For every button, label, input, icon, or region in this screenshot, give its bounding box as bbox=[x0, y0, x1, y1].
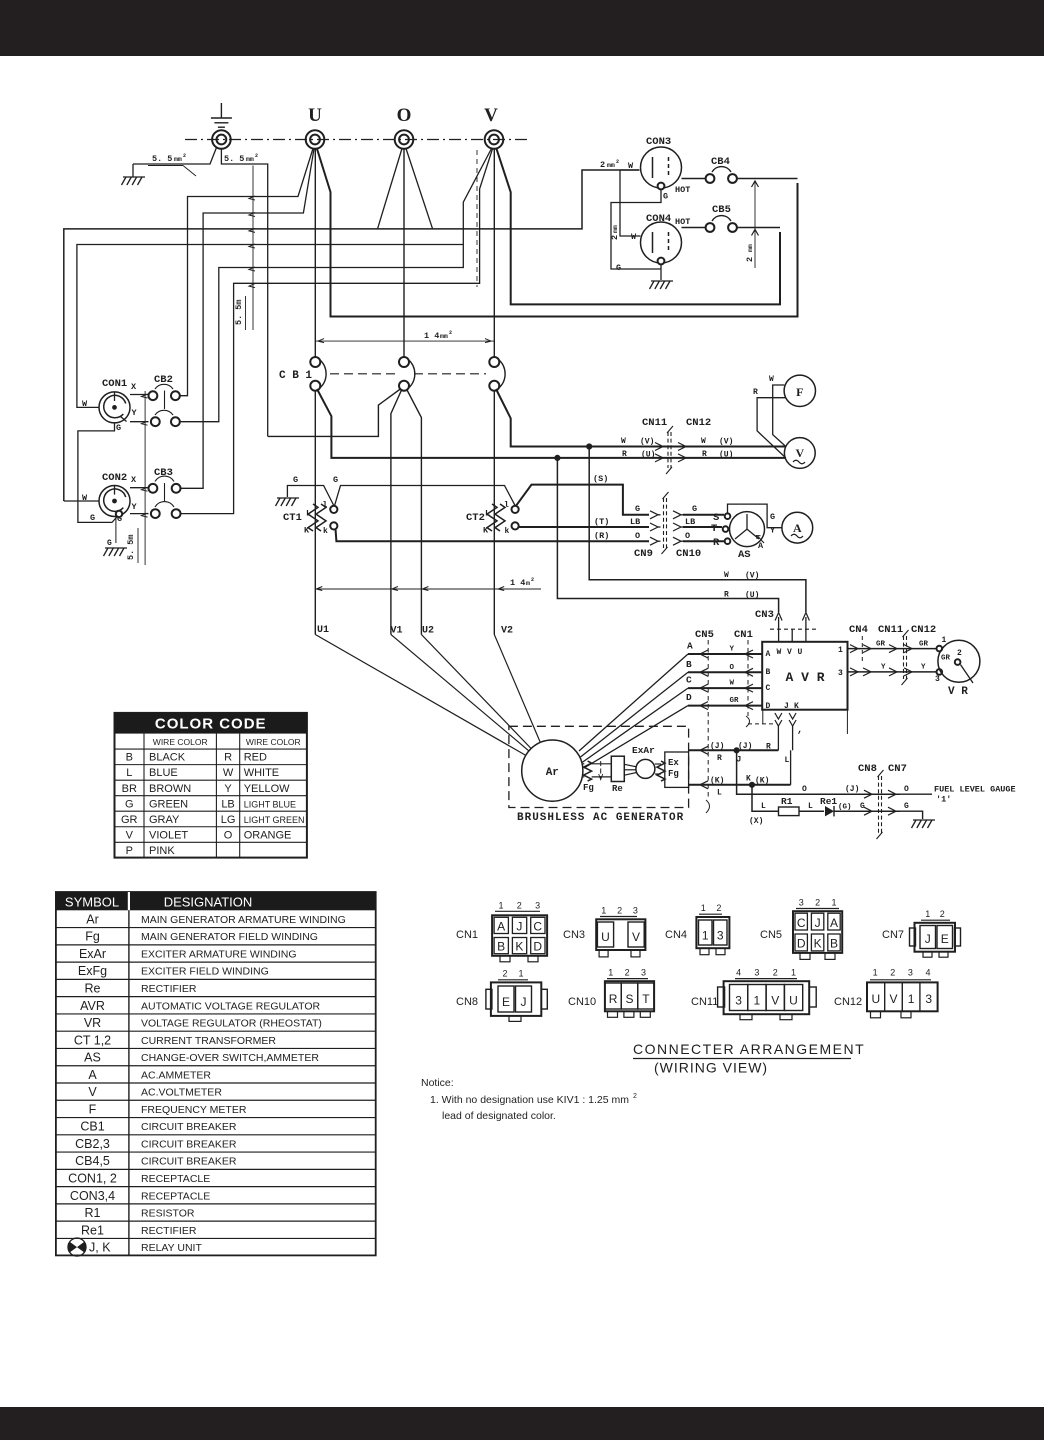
svg-text:3: 3 bbox=[908, 968, 913, 978]
dimension 14mm2 above U1..V2 bbox=[315, 588, 541, 590]
svg-text:1: 1 bbox=[754, 994, 761, 1008]
svg-text:mm: mm bbox=[174, 156, 182, 163]
svg-text:U2: U2 bbox=[422, 626, 434, 637]
svg-text:CN5: CN5 bbox=[695, 629, 714, 641]
svg-text:2: 2 bbox=[616, 159, 619, 165]
svg-text:CN8: CN8 bbox=[456, 996, 478, 1008]
svg-text:1: 1 bbox=[942, 636, 947, 645]
svg-text:RECTIFIER: RECTIFIER bbox=[141, 983, 197, 995]
svg-text:4: 4 bbox=[736, 968, 741, 978]
wire O left diagonal to neutral bus bbox=[378, 149, 403, 229]
svg-text:CB2,3: CB2,3 bbox=[75, 1137, 110, 1151]
svg-text:FREQUENCY METER: FREQUENCY METER bbox=[141, 1104, 247, 1116]
svg-text:CIRCUIT BREAKER: CIRCUIT BREAKER bbox=[141, 1121, 237, 1133]
wire CON4 W bbox=[620, 170, 641, 236]
svg-text:5. 5: 5. 5 bbox=[152, 154, 172, 164]
svg-text:C: C bbox=[533, 920, 542, 934]
wire U to CB4 bus bbox=[317, 149, 798, 317]
svg-text:C: C bbox=[766, 684, 771, 693]
svg-text:1 4: 1 4 bbox=[510, 578, 525, 588]
svg-text:1: 1 bbox=[925, 909, 930, 919]
svg-text:R1: R1 bbox=[85, 1206, 101, 1220]
svg-text:W: W bbox=[631, 232, 637, 242]
svg-text:R: R bbox=[766, 743, 771, 752]
wire CN10 O to AS R bbox=[683, 540, 724, 542]
svg-text:K: K bbox=[814, 937, 822, 951]
wire generator D to AVR pin D bbox=[688, 705, 762, 707]
svg-text:1: 1 bbox=[518, 969, 523, 979]
symbol designation table bbox=[56, 892, 376, 1256]
svg-text:J: J bbox=[925, 932, 931, 946]
svg-text:GR: GR bbox=[876, 641, 886, 649]
svg-text:CN12: CN12 bbox=[834, 996, 862, 1008]
wire V2 drop to generator bbox=[494, 635, 540, 743]
svg-text:V: V bbox=[771, 994, 779, 1008]
wire CB1-O to V1 column bbox=[391, 389, 402, 635]
svg-text:CN7: CN7 bbox=[882, 929, 904, 941]
wire CN7 O to fuel level gauge bbox=[898, 793, 932, 795]
wire CN7 G to ground bbox=[898, 811, 923, 819]
svg-text:LB: LB bbox=[630, 517, 640, 527]
svg-text:mm: mm bbox=[246, 156, 254, 163]
svg-text:CN7: CN7 bbox=[888, 763, 907, 775]
svg-text:3: 3 bbox=[754, 968, 759, 978]
wire earth terminal down to neutral return bbox=[221, 149, 267, 437]
svg-text:LIGHT BLUE: LIGHT BLUE bbox=[244, 799, 296, 809]
wire Re to ExAr bbox=[624, 764, 636, 767]
svg-text:CON2: CON2 bbox=[102, 472, 127, 484]
svg-text:ExFg: ExFg bbox=[78, 964, 107, 978]
svg-text:(R): (R) bbox=[594, 531, 609, 541]
svg-text:(G): (G) bbox=[838, 804, 852, 812]
svg-text:D: D bbox=[766, 702, 771, 711]
wire W(V) branch down to AVR CN3 bbox=[589, 447, 806, 613]
wire CT2 l to AS S row bbox=[516, 485, 649, 515]
svg-text:AS: AS bbox=[738, 549, 751, 561]
svg-text:Y: Y bbox=[921, 664, 926, 672]
svg-text:V: V bbox=[88, 1085, 97, 1099]
svg-text:5. 5: 5. 5 bbox=[224, 154, 244, 164]
relay unit J (node) bbox=[734, 748, 739, 753]
svg-text:C: C bbox=[686, 675, 692, 686]
op-amp AVR (automatic voltage regulator) bbox=[762, 642, 847, 710]
wire CB1-O to U2 column bbox=[407, 389, 422, 635]
svg-text:PINK: PINK bbox=[149, 845, 175, 857]
svg-text:L: L bbox=[808, 802, 813, 811]
svg-text:RECEPTACLE: RECEPTACLE bbox=[141, 1190, 210, 1202]
svg-text:2: 2 bbox=[610, 235, 620, 240]
dimension 2mm2 at CB4/CB5 bbox=[754, 181, 756, 268]
wire U to CB2 (bus y=196) bbox=[180, 149, 313, 396]
svg-text:Ex: Ex bbox=[668, 758, 679, 768]
wire-size leader CB2/CB3 (5.5mm2) bbox=[144, 391, 146, 565]
svg-text:Y: Y bbox=[770, 526, 776, 536]
terminal U bbox=[306, 130, 325, 149]
rectifier Re1 (diode) bbox=[825, 806, 834, 816]
svg-text:RECTIFIER: RECTIFIER bbox=[141, 1225, 197, 1237]
wire U2 drop to generator bbox=[421, 635, 531, 749]
svg-text:(V): (V) bbox=[640, 438, 654, 447]
svg-text:(U): (U) bbox=[641, 451, 655, 460]
svg-text:V: V bbox=[484, 105, 498, 126]
svg-text:R: R bbox=[713, 537, 720, 549]
svg-text:A: A bbox=[766, 650, 771, 659]
wire AVR 1 to VR 1 bbox=[848, 648, 937, 650]
svg-text:CN10: CN10 bbox=[676, 548, 701, 560]
svg-text:J: J bbox=[516, 920, 522, 934]
svg-text:1: 1 bbox=[873, 968, 878, 978]
change-over switch AS bbox=[730, 512, 765, 547]
svg-text:C B 1: C B 1 bbox=[279, 370, 312, 382]
svg-text:1: 1 bbox=[601, 906, 606, 916]
svg-text:5. 5m: 5. 5m bbox=[234, 299, 244, 325]
svg-text:DESIGNATION: DESIGNATION bbox=[164, 895, 253, 910]
svg-text:U1: U1 bbox=[317, 625, 329, 636]
svg-text:(J): (J) bbox=[710, 742, 724, 751]
svg-text:YELLOW: YELLOW bbox=[244, 783, 290, 795]
svg-text:2: 2 bbox=[502, 969, 507, 979]
svg-text:O: O bbox=[397, 105, 412, 126]
svg-text:Notice:: Notice: bbox=[421, 1077, 454, 1089]
svg-text:W: W bbox=[82, 399, 88, 409]
svg-text:BR: BR bbox=[122, 783, 137, 795]
svg-text:C: C bbox=[797, 916, 806, 930]
wire U to CB3 (bus y=213) bbox=[181, 149, 314, 489]
wire U1 drop to generator bbox=[315, 635, 526, 756]
svg-text:R: R bbox=[717, 754, 722, 763]
svg-text:3: 3 bbox=[641, 968, 646, 978]
wire CON1 G bbox=[78, 423, 115, 523]
svg-text:L: L bbox=[785, 756, 790, 765]
svg-text:R: R bbox=[724, 591, 729, 600]
svg-text:1: 1 bbox=[701, 903, 706, 913]
svg-text:WIRE COLOR: WIRE COLOR bbox=[153, 737, 208, 747]
frequency meter F bbox=[784, 375, 815, 406]
svg-text:2: 2 bbox=[716, 903, 721, 913]
receptacle CON3 bbox=[641, 147, 682, 188]
svg-text:V: V bbox=[126, 829, 134, 841]
svg-text:L: L bbox=[306, 509, 311, 519]
relay unit K (node) bbox=[749, 782, 754, 787]
svg-text:CB5: CB5 bbox=[712, 204, 731, 216]
svg-text:P: P bbox=[126, 845, 133, 857]
wire CT1 k to CN9 R row bbox=[336, 529, 650, 541]
svg-text:V: V bbox=[795, 446, 804, 460]
svg-text:2: 2 bbox=[633, 1093, 637, 1100]
svg-text:Fg: Fg bbox=[583, 783, 594, 793]
svg-text:D: D bbox=[797, 937, 806, 951]
svg-text:mm: mm bbox=[440, 333, 448, 340]
svg-text:W: W bbox=[701, 437, 706, 446]
svg-text:2: 2 bbox=[890, 968, 895, 978]
svg-text:O: O bbox=[224, 829, 233, 841]
wire CT2 k to CN9 T row bbox=[519, 526, 650, 528]
svg-text:Y: Y bbox=[132, 502, 138, 512]
svg-text:CN10: CN10 bbox=[568, 996, 596, 1008]
svg-text:A: A bbox=[687, 641, 693, 652]
svg-text:K: K bbox=[515, 940, 523, 954]
svg-text:AC.VOLTMETER: AC.VOLTMETER bbox=[141, 1087, 222, 1099]
svg-text:HOT: HOT bbox=[675, 217, 690, 227]
wire AVR K drop (CN3 chevrons) bbox=[789, 713, 796, 719]
svg-text:2: 2 bbox=[815, 898, 820, 908]
svg-text:2: 2 bbox=[255, 153, 258, 159]
svg-text:WHITE: WHITE bbox=[244, 767, 279, 779]
svg-text:O: O bbox=[904, 785, 909, 794]
svg-text:V R: V R bbox=[948, 686, 968, 698]
wire CB1-O to neutral/earth return bbox=[268, 389, 401, 437]
wire F meter W lead bbox=[773, 385, 786, 447]
svg-text:D: D bbox=[533, 940, 542, 954]
svg-text:GR: GR bbox=[730, 697, 740, 705]
svg-text:U: U bbox=[308, 105, 322, 126]
svg-text:m: m bbox=[526, 580, 530, 587]
wire CON2 Y to CB3 bbox=[130, 513, 149, 515]
terminal O bbox=[395, 130, 414, 149]
svg-text:X: X bbox=[131, 475, 137, 485]
wire CB1-V to voltmeter W(V) row bbox=[496, 389, 786, 447]
ground (CT common) bbox=[277, 497, 299, 499]
wire generator C to AVR pin C bbox=[688, 687, 762, 689]
svg-text:Ar: Ar bbox=[546, 767, 559, 779]
wire V to CB2 lower (bus y=267) bbox=[180, 149, 492, 422]
svg-text:RESISTOR: RESISTOR bbox=[141, 1208, 195, 1220]
svg-text:W: W bbox=[724, 571, 729, 580]
svg-text:Y: Y bbox=[730, 646, 735, 654]
svg-text:G: G bbox=[770, 512, 775, 522]
svg-text:E: E bbox=[502, 995, 510, 1009]
svg-text:(U): (U) bbox=[719, 451, 733, 460]
svg-text:CN4: CN4 bbox=[665, 929, 687, 941]
svg-text:1: 1 bbox=[702, 929, 709, 943]
AS wiper arrow A bbox=[758, 536, 765, 543]
svg-text:G: G bbox=[107, 539, 112, 548]
svg-text:U: U bbox=[789, 994, 798, 1008]
ground (CON2) bbox=[105, 547, 127, 549]
svg-text:CON1, 2: CON1, 2 bbox=[68, 1171, 117, 1185]
svg-text:l: l bbox=[323, 501, 328, 510]
svg-text:CHANGE-OVER SWITCH,AMMETER: CHANGE-OVER SWITCH,AMMETER bbox=[141, 1052, 319, 1064]
wire O column down to CB1 bbox=[403, 149, 405, 358]
svg-text:A: A bbox=[793, 521, 802, 535]
wire CON2 X to CB3 bbox=[130, 487, 149, 489]
svg-text:mm: mm bbox=[607, 162, 615, 169]
svg-text:AUTOMATIC VOLTAGE REGULATOR: AUTOMATIC VOLTAGE REGULATOR bbox=[141, 1000, 321, 1012]
svg-text:(K): (K) bbox=[710, 777, 724, 786]
svg-text:J, K: J, K bbox=[89, 1241, 111, 1255]
svg-text:CN8: CN8 bbox=[858, 763, 877, 775]
voltmeter V bbox=[784, 438, 815, 469]
svg-text:V2: V2 bbox=[501, 626, 513, 637]
svg-text:(T): (T) bbox=[594, 517, 609, 527]
bottom title bar bbox=[0, 1407, 1044, 1440]
wire CON1 Y to CB2 bbox=[130, 421, 149, 423]
svg-text:k: k bbox=[505, 527, 510, 536]
svg-text:1: 1 bbox=[608, 968, 613, 978]
svg-text:A: A bbox=[497, 920, 505, 934]
svg-text:G: G bbox=[663, 192, 668, 202]
wire bus to CON1 W bbox=[77, 245, 463, 408]
svg-text:A V R: A V R bbox=[785, 670, 824, 685]
rectifier Re bbox=[611, 756, 624, 781]
svg-text:Y: Y bbox=[881, 664, 886, 672]
svg-text:GR: GR bbox=[121, 814, 138, 826]
svg-text:CN1: CN1 bbox=[456, 929, 478, 941]
ground (fuel gauge) bbox=[913, 819, 935, 821]
terminal V bbox=[485, 130, 504, 149]
svg-text:CON1: CON1 bbox=[102, 378, 127, 390]
svg-text:CT2: CT2 bbox=[466, 512, 485, 524]
svg-text:G: G bbox=[904, 802, 909, 811]
svg-text:W: W bbox=[223, 767, 234, 779]
svg-text:G: G bbox=[293, 475, 298, 485]
svg-text:k: k bbox=[323, 527, 328, 536]
svg-text:COLOR CODE: COLOR CODE bbox=[155, 716, 267, 733]
svg-text:B: B bbox=[126, 752, 133, 764]
wire CON3 HOT to CB4 bbox=[682, 178, 706, 180]
svg-text:Fg: Fg bbox=[85, 930, 100, 944]
svg-text:L: L bbox=[126, 767, 132, 779]
svg-text:G: G bbox=[116, 423, 121, 433]
wire earth terminal to left ground bbox=[133, 148, 217, 165]
svg-text:'1': '1' bbox=[936, 795, 951, 805]
svg-text:AVR: AVR bbox=[80, 999, 105, 1013]
svg-text:J: J bbox=[784, 702, 789, 711]
svg-text:mm: mm bbox=[747, 244, 754, 252]
svg-text:K: K bbox=[304, 526, 310, 536]
svg-text:L: L bbox=[717, 789, 722, 798]
svg-text:BRUSHLESS AC GENERATOR: BRUSHLESS AC GENERATOR bbox=[517, 812, 684, 824]
svg-text:SYMBOL: SYMBOL bbox=[65, 895, 119, 910]
wire ExFg J row bbox=[689, 749, 779, 751]
svg-text:3: 3 bbox=[633, 906, 638, 916]
ground symbol above terminal E bbox=[220, 103, 222, 118]
svg-text:(U): (U) bbox=[745, 591, 759, 600]
svg-text:1: 1 bbox=[498, 901, 503, 911]
svg-text:CB1: CB1 bbox=[80, 1120, 104, 1134]
svg-text:G: G bbox=[90, 513, 95, 523]
svg-text:FUEL LEVEL GAUGE: FUEL LEVEL GAUGE bbox=[934, 785, 1016, 795]
svg-text:B: B bbox=[686, 659, 692, 670]
wire CB5 to bus bbox=[737, 227, 780, 229]
svg-text:A: A bbox=[88, 1068, 97, 1082]
svg-text:CN9: CN9 bbox=[634, 548, 653, 560]
svg-text:mm: mm bbox=[612, 225, 619, 233]
shaft dash-dot bbox=[600, 761, 602, 778]
svg-text:(V): (V) bbox=[745, 572, 759, 581]
svg-text:RED: RED bbox=[244, 752, 267, 764]
svg-text:B: B bbox=[766, 668, 771, 677]
wire V column down to CB1 bbox=[493, 149, 495, 358]
svg-text:CN3: CN3 bbox=[563, 929, 585, 941]
svg-text:VIOLET: VIOLET bbox=[149, 829, 188, 841]
svg-text:ExAr: ExAr bbox=[632, 745, 655, 756]
svg-text:3: 3 bbox=[799, 898, 804, 908]
wire R(U) branch down to AVR CN3 bbox=[557, 458, 778, 612]
svg-text:V: V bbox=[632, 930, 640, 944]
svg-text:2: 2 bbox=[773, 968, 778, 978]
svg-text:E: E bbox=[941, 932, 949, 946]
wire AVR 3 to VR 3 bbox=[848, 671, 937, 673]
svg-text:EXCITER FIELD WINDING: EXCITER FIELD WINDING bbox=[141, 966, 269, 978]
svg-text:K: K bbox=[794, 702, 799, 711]
svg-text:Re: Re bbox=[85, 982, 101, 996]
svg-text:W: W bbox=[769, 375, 774, 384]
wire neutral bus O-CON2W-CON3W bbox=[64, 170, 640, 501]
dimension 14mm2 above CB1 bbox=[315, 340, 494, 342]
wire CON3 W bbox=[620, 169, 640, 171]
svg-text:CB4,5: CB4,5 bbox=[75, 1154, 110, 1168]
svg-text:Ar: Ar bbox=[86, 912, 99, 926]
svg-text:K: K bbox=[746, 775, 751, 784]
svg-text:CN11: CN11 bbox=[878, 624, 903, 636]
exciter armature ExAr bbox=[636, 759, 655, 778]
wire-size leader with arrows (5.5mm2 feeders) bbox=[252, 166, 254, 331]
rheostat VR bbox=[938, 640, 980, 682]
svg-text:BLUE: BLUE bbox=[149, 767, 178, 779]
svg-text:V: V bbox=[889, 992, 897, 1006]
wire CON1 X to CB2 bbox=[130, 394, 149, 396]
wire O right diagonal to neutral bus bbox=[406, 149, 433, 229]
wire CB1-U to voltmeter R(U) row bbox=[317, 389, 786, 458]
svg-text:Re: Re bbox=[612, 784, 623, 794]
svg-text:3: 3 bbox=[925, 992, 932, 1006]
wire CB1-V to V2 column bbox=[493, 391, 495, 635]
wire CB1-U to U1 column bbox=[314, 391, 316, 635]
svg-text:2: 2 bbox=[531, 577, 534, 583]
wire F meter R lead bbox=[757, 398, 786, 458]
svg-text:CN12: CN12 bbox=[911, 624, 936, 636]
svg-text:CN3: CN3 bbox=[755, 609, 774, 621]
svg-text:MAIN GENERATOR FIELD WINDING: MAIN GENERATOR FIELD WINDING bbox=[141, 931, 318, 943]
svg-text:G: G bbox=[860, 802, 865, 811]
wire CN10 G to AS S bbox=[683, 514, 724, 516]
svg-text:2: 2 bbox=[600, 160, 605, 170]
field winding Fg bbox=[583, 763, 584, 765]
svg-text:O: O bbox=[802, 785, 807, 794]
svg-text:CT 1,2: CT 1,2 bbox=[74, 1033, 111, 1047]
svg-text:G: G bbox=[125, 798, 134, 810]
wire CON3 G to CON4 ground bbox=[611, 190, 661, 270]
wire U column down to CB1 bbox=[314, 149, 316, 358]
resistor R1 bbox=[779, 807, 800, 816]
wire CON4 HOT to CB5 bbox=[682, 227, 706, 229]
svg-text:CONNECTER ARRANGEMENT: CONNECTER ARRANGEMENT bbox=[633, 1041, 865, 1057]
wire CON2 G to ground bbox=[116, 511, 122, 517]
svg-text:CN5: CN5 bbox=[760, 929, 782, 941]
svg-text:(S): (S) bbox=[593, 474, 608, 484]
top title bar bbox=[0, 0, 1044, 56]
wire ExFg K row bbox=[689, 784, 791, 786]
wire AS S loop to ammeter bbox=[728, 504, 783, 528]
svg-text:GREEN: GREEN bbox=[149, 798, 188, 810]
svg-text:L: L bbox=[761, 802, 766, 811]
svg-text:(V): (V) bbox=[719, 438, 733, 447]
svg-text:U: U bbox=[871, 992, 880, 1006]
svg-text:Re1: Re1 bbox=[81, 1223, 104, 1237]
svg-text:(K): (K) bbox=[755, 777, 769, 786]
svg-text:A: A bbox=[830, 916, 838, 930]
svg-text:3: 3 bbox=[735, 994, 742, 1008]
svg-text:,: , bbox=[797, 725, 803, 736]
svg-text:X: X bbox=[131, 382, 137, 392]
node terminal-bus dash-dot line bbox=[185, 139, 530, 141]
svg-text:RECEPTACLE: RECEPTACLE bbox=[141, 1173, 210, 1185]
svg-text:R: R bbox=[702, 450, 707, 459]
svg-text:G: G bbox=[692, 504, 697, 514]
wire generator B to AVR pin B bbox=[688, 671, 762, 673]
svg-text:F: F bbox=[796, 385, 803, 399]
